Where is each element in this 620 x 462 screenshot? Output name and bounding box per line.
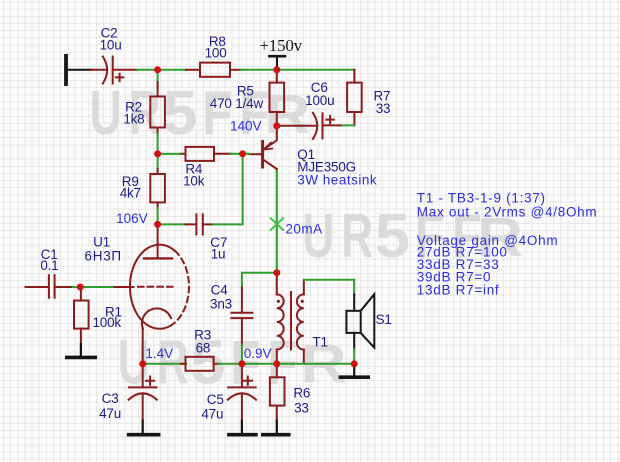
- tube U1 cathode lead: [142, 328, 144, 364]
- svg-text:106V: 106V: [116, 211, 148, 226]
- wire C2 to node A: [137, 69, 187, 71]
- ground (speaker): [340, 364, 368, 377]
- wire C1 to node H to tube grid: [73, 286, 113, 288]
- tube U1 grid lead: [112, 286, 134, 288]
- svg-text:470 1/4w: 470 1/4w: [210, 96, 264, 111]
- wire speaker to node L: [353, 349, 355, 364]
- junction node B: [273, 66, 280, 73]
- svg-text:+150v: +150v: [259, 36, 302, 55]
- wire Q1 collector down to node F: [276, 171, 278, 273]
- resistor R8: [186, 63, 241, 77]
- svg-text:R: R: [341, 202, 373, 271]
- junction node E: [239, 150, 246, 157]
- svg-text:S1: S1: [376, 312, 392, 327]
- junction node K: [273, 360, 280, 367]
- tube U1 anode plate: [144, 257, 172, 259]
- transistor Q1 emitter arrow: [264, 143, 273, 150]
- wire base to node E: [243, 153, 250, 155]
- capacitor C7: [186, 214, 214, 234]
- wire C7 to node E (corner): [213, 154, 243, 225]
- resistor R3: [181, 357, 219, 371]
- svg-text:10u: 10u: [100, 38, 122, 53]
- wire secondary to speaker: [304, 280, 354, 295]
- svg-text:100: 100: [205, 45, 227, 60]
- tube U1 envelope solid arc: [130, 245, 175, 329]
- svg-text:4k7: 4k7: [120, 185, 141, 200]
- transistor Q1 base lead: [249, 153, 263, 155]
- capacitor C4: [231, 288, 252, 346]
- resistor R7: [347, 70, 362, 126]
- svg-text:47u: 47u: [201, 407, 223, 422]
- svg-text:T1 - TB3-1-9 (1:37): T1 - TB3-1-9 (1:37): [417, 191, 546, 206]
- svg-text:33: 33: [376, 101, 391, 116]
- junction node C: [154, 150, 161, 157]
- svg-text:U1: U1: [93, 234, 110, 249]
- svg-text:5: 5: [162, 79, 197, 148]
- speaker S1 cone: [361, 294, 375, 348]
- svg-text:1k8: 1k8: [123, 112, 144, 127]
- svg-text:20mA: 20mA: [285, 221, 322, 236]
- tube U1 grid dashes: [138, 286, 177, 288]
- wire node G to C7: [158, 223, 186, 225]
- junction node D: [273, 122, 280, 129]
- wire node A down to R2: [157, 70, 159, 83]
- resistor R6: [270, 364, 285, 421]
- svg-text:0.9V: 0.9V: [244, 346, 272, 361]
- svg-text:Max out - 2Vrms @4/8Ohm: Max out - 2Vrms @4/8Ohm: [417, 204, 598, 219]
- resistor R4: [180, 147, 231, 161]
- svg-text:1u: 1u: [211, 247, 226, 262]
- svg-text:3W heatsink: 3W heatsink: [297, 172, 377, 187]
- svg-text:F: F: [202, 79, 232, 148]
- transformer T1 secondary phase dot: [301, 300, 304, 303]
- junction node L: [351, 360, 358, 367]
- bottom rail wire R3 to nodes J K L: [218, 363, 354, 365]
- transformer T1 primary lead: [276, 273, 278, 295]
- junction node J: [238, 360, 245, 367]
- svg-text:5: 5: [375, 202, 410, 271]
- tube U1 anode lead: [157, 222, 159, 258]
- speaker S1 body: [346, 311, 360, 333]
- wire node F left and down to C4: [242, 273, 277, 288]
- junction node A: [154, 66, 161, 73]
- supply +150v: [269, 56, 285, 66]
- wire C4 to node J: [241, 345, 243, 364]
- svg-text:R6: R6: [293, 386, 310, 401]
- capacitor C5: [228, 364, 256, 421]
- transformer T1 primary winding: [277, 294, 284, 349]
- transistor Q1 collector lead: [263, 160, 276, 172]
- tube U1 cathode arc: [142, 308, 171, 328]
- svg-text:100k: 100k: [92, 315, 121, 330]
- svg-text:C3: C3: [102, 391, 119, 406]
- watermark UR5FFR middle: [302, 202, 523, 271]
- transformer T1 secondary bottom lead: [303, 350, 305, 364]
- svg-text:33: 33: [294, 401, 309, 416]
- wire R9 to node G: [157, 208, 159, 224]
- junction node G: [154, 221, 161, 228]
- svg-text:140V: 140V: [230, 118, 262, 133]
- resistor R2: [150, 82, 165, 135]
- capacitor C2: [91, 57, 137, 84]
- watermark UR5FFR bottom: [118, 329, 347, 398]
- svg-text:U: U: [302, 202, 334, 271]
- svg-text:U: U: [90, 79, 122, 148]
- ground (R6): [263, 421, 289, 435]
- wire R7 to C6: [340, 124, 354, 126]
- svg-text:T1: T1: [313, 334, 328, 349]
- transformer T1 primary phase dot: [277, 300, 280, 303]
- svg-text:C4: C4: [211, 283, 229, 298]
- capacitor C3: [129, 364, 157, 421]
- resistor R1: [74, 287, 89, 345]
- junction node H: [77, 284, 84, 291]
- wire node C to R4: [158, 153, 181, 155]
- transformer T1 primary bottom lead: [276, 350, 278, 364]
- svg-text:6Н3П: 6Н3П: [85, 248, 122, 263]
- svg-text:0.1: 0.1: [40, 258, 58, 273]
- ground (C5): [229, 421, 256, 435]
- svg-text:100u: 100u: [305, 93, 334, 108]
- svg-text:10k: 10k: [183, 174, 205, 189]
- ground (C3): [129, 421, 159, 435]
- resistor R5: [270, 70, 285, 126]
- transformer T1 secondary winding: [297, 294, 304, 349]
- wire node C down to R9: [157, 158, 159, 169]
- transistor Q1 emitter lead from node D: [264, 126, 277, 149]
- svg-text:1.4V: 1.4V: [145, 346, 173, 361]
- ground (input, left): [66, 56, 91, 84]
- capacitor C1: [26, 275, 74, 298]
- watermark UR5FFR top: [90, 79, 311, 148]
- resistor R9: [150, 169, 165, 209]
- transformer T1 secondary top lead: [303, 281, 305, 295]
- tube U1 envelope dashed arc: [175, 251, 189, 323]
- junction node F: [273, 269, 280, 276]
- ground (R1): [67, 344, 96, 357]
- bottom rail wire I to R3: [143, 363, 186, 365]
- svg-text:68: 68: [196, 340, 211, 355]
- junction node I: [139, 360, 146, 367]
- capacitor C6: [277, 113, 341, 139]
- wire R2 to node C: [157, 134, 159, 154]
- wire R8 to node B and to R7: [241, 69, 355, 71]
- transformer T1 core: [290, 292, 292, 350]
- wire R4 to node E: [230, 153, 243, 155]
- annotation text block: [417, 191, 598, 298]
- speaker S1 leads: [353, 295, 355, 350]
- svg-text:R: R: [265, 83, 311, 145]
- svg-text:3n3: 3n3: [210, 297, 232, 312]
- transistor Q1 base bar: [261, 142, 264, 168]
- svg-text:C5: C5: [207, 392, 224, 407]
- svg-text:47u: 47u: [99, 406, 121, 421]
- current marker X 20mA: [271, 218, 283, 230]
- svg-text:13dB R7=inf: 13dB R7=inf: [417, 282, 500, 297]
